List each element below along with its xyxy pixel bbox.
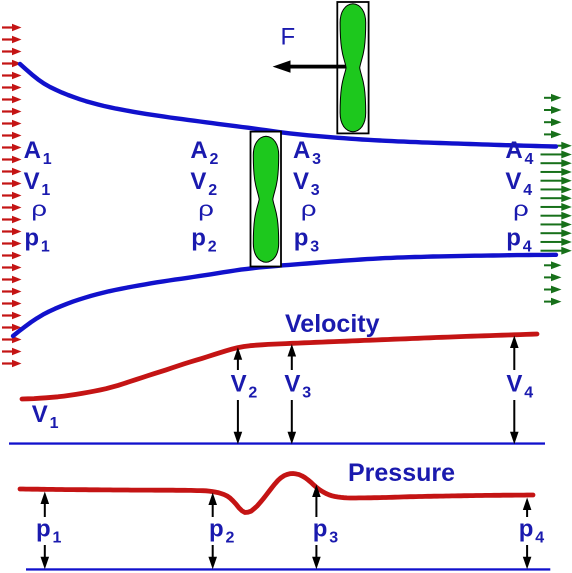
svg-text:A: A [505, 137, 522, 164]
inlet flow arrows (red, left edge) [2, 24, 22, 368]
actuator disk frame (in stream tube) [251, 132, 282, 267]
svg-text:V: V [32, 401, 48, 428]
outlet flow arrows inside slipstream (green, long) [541, 142, 572, 255]
svg-text:4: 4 [523, 239, 532, 256]
svg-text:Pressure: Pressure [348, 459, 455, 487]
svg-text:ρ: ρ [513, 198, 529, 221]
labels downstream of disk station 3: A V rho p [293, 137, 321, 256]
svg-text:V: V [231, 371, 247, 398]
arrow p2 [208, 493, 217, 570]
label V2 [229, 370, 258, 402]
svg-text:4: 4 [525, 151, 534, 168]
svg-text:p: p [313, 516, 328, 543]
svg-text:Velocity: Velocity [285, 310, 380, 338]
stream tube upper boundary [20, 64, 556, 147]
svg-text:p: p [209, 516, 224, 543]
arrow V3 [288, 344, 297, 444]
thrust force arrow F [288, 65, 346, 69]
label p1 [34, 516, 62, 547]
labels outlet station 4: A V rho p [505, 137, 533, 256]
svg-text:p: p [24, 225, 39, 252]
svg-text:F: F [281, 24, 296, 51]
labels upstream of disk station 2: A V rho p [190, 137, 218, 256]
svg-text:2: 2 [208, 239, 217, 256]
svg-text:V: V [24, 168, 40, 195]
svg-text:3: 3 [302, 385, 311, 402]
arrow p4 [523, 498, 532, 570]
svg-text:3: 3 [329, 530, 338, 547]
svg-text:3: 3 [310, 239, 319, 256]
svg-text:4: 4 [535, 530, 544, 547]
svg-text:ρ: ρ [31, 198, 47, 221]
svg-text:4: 4 [523, 182, 532, 199]
label V1 [32, 401, 59, 432]
svg-text:p: p [36, 516, 51, 543]
svg-text:V: V [284, 371, 300, 398]
svg-text:ρ: ρ [301, 198, 317, 221]
svg-text:A: A [190, 137, 207, 164]
outlet flow arrows below slipstream (green, short) [544, 261, 562, 305]
label p2 [207, 516, 235, 547]
svg-text:p: p [519, 516, 534, 543]
svg-text:p: p [506, 225, 521, 252]
svg-text:1: 1 [53, 530, 62, 547]
labels inlet station 1: A V rho p [24, 137, 52, 256]
svg-text:A: A [24, 137, 41, 164]
pressure axis baseline [26, 568, 550, 570]
svg-text:4: 4 [524, 385, 533, 402]
label p4 [517, 516, 545, 547]
svg-text:2: 2 [210, 151, 219, 168]
propeller blades (top) [340, 4, 366, 132]
label p3 [310, 516, 338, 547]
pressure curve [20, 474, 533, 513]
propeller blades (in stream tube) [253, 136, 278, 262]
label V4 [505, 370, 534, 402]
arrow p3 [312, 485, 321, 570]
svg-text:1: 1 [50, 415, 59, 432]
svg-text:p: p [191, 225, 206, 252]
svg-text:V: V [506, 371, 522, 398]
arrow V2 [234, 347, 243, 444]
velocity axis baseline [9, 442, 545, 444]
svg-text:2: 2 [208, 182, 217, 199]
svg-text:2: 2 [226, 530, 235, 547]
arrow p1 [41, 492, 50, 570]
svg-text:p: p [294, 225, 309, 252]
label V3 [283, 370, 312, 402]
svg-text:V: V [505, 168, 521, 195]
svg-text:V: V [190, 168, 206, 195]
svg-text:ρ: ρ [198, 198, 214, 221]
svg-text:1: 1 [41, 182, 50, 199]
svg-text:2: 2 [248, 385, 257, 402]
outlet flow arrows above slipstream (green, short) [544, 94, 562, 138]
svg-text:3: 3 [311, 182, 320, 199]
svg-text:1: 1 [41, 239, 50, 256]
svg-text:3: 3 [312, 151, 321, 168]
svg-text:V: V [293, 168, 309, 195]
stream tube lower boundary [13, 255, 556, 336]
svg-text:A: A [293, 137, 310, 164]
arrow V4 [510, 336, 519, 445]
velocity curve [22, 334, 537, 399]
force diagram frame (top) [337, 2, 368, 133]
svg-text:1: 1 [43, 151, 52, 168]
